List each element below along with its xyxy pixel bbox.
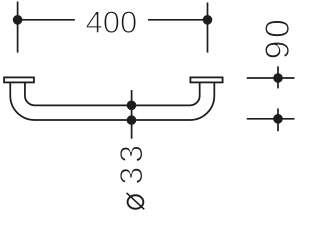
- diameter dimension top dot on tube top line: [127, 101, 137, 111]
- right wall flange plate: [190, 77, 222, 82]
- right dimension bottom dot: [273, 114, 283, 124]
- right dimension: upper vertical stub: [277, 66, 279, 88]
- top dimension: left extension line: [17, 2, 19, 53]
- right dimension: lower vertical stub: [277, 109, 279, 132]
- diameter dimension: vertical line through tube: [131, 90, 133, 139]
- right dimension top dot: [273, 73, 283, 83]
- top dimension line right segment: [148, 19, 208, 21]
- diameter dimension bottom dot on tube bottom line: [127, 115, 137, 125]
- right dimension: bottom cross line: [247, 118, 295, 120]
- right dimension: top cross line: [247, 77, 295, 79]
- grab bar tube inner white core: [18, 83, 207, 113]
- dimension text 400: [86, 11, 102, 32]
- dimension text 90 (rotated): [265, 42, 289, 58]
- dimension text 33 of diameter label (rotated): [120, 168, 143, 183]
- diameter symbol circle: [128, 195, 144, 209]
- top dimension left dot: [13, 15, 23, 25]
- diameter symbol slash: [127, 193, 145, 209]
- grab bar tube outer outline: [18, 83, 207, 113]
- top dimension right dot: [203, 15, 213, 25]
- top dimension: right extension line: [207, 3, 209, 53]
- top dimension line left segment: [18, 19, 75, 21]
- left wall flange plate: [4, 77, 34, 82]
